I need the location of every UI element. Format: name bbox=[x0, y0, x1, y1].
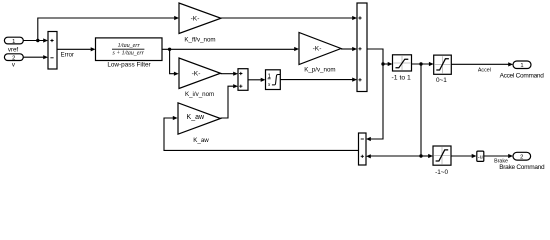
svg-text:s + 1/tau_err: s + 1/tau_err bbox=[112, 51, 144, 57]
svg-text:K_p/v_nom: K_p/v_nom bbox=[304, 67, 335, 74]
svg-text:K_aw: K_aw bbox=[193, 137, 209, 144]
svg-text:vref: vref bbox=[8, 47, 19, 54]
svg-text:-u: -u bbox=[478, 155, 483, 161]
svg-text:2: 2 bbox=[520, 155, 523, 161]
svg-text:0~1: 0~1 bbox=[436, 77, 447, 84]
svg-text:Low-pass Filter: Low-pass Filter bbox=[107, 62, 151, 69]
svg-text:Brake Command: Brake Command bbox=[499, 164, 545, 171]
svg-text:-1 to 1: -1 to 1 bbox=[392, 74, 411, 81]
svg-text:1: 1 bbox=[12, 39, 15, 45]
svg-text:-K-: -K- bbox=[192, 71, 201, 78]
svg-text:-K-: -K- bbox=[313, 46, 322, 53]
svg-text:K_i/v_nom: K_i/v_nom bbox=[185, 91, 214, 98]
svg-text:Error: Error bbox=[61, 53, 74, 59]
svg-text:-1~0: -1~0 bbox=[435, 169, 448, 176]
svg-text:K_aw: K_aw bbox=[187, 114, 205, 121]
svg-text:Accel Command: Accel Command bbox=[500, 73, 545, 80]
svg-text:1/tau_err: 1/tau_err bbox=[118, 43, 141, 49]
svg-text:Accel: Accel bbox=[478, 67, 491, 73]
svg-text:1: 1 bbox=[520, 63, 523, 69]
svg-text:K_ff/v_nom: K_ff/v_nom bbox=[184, 37, 215, 44]
svg-text:-K-: -K- bbox=[191, 15, 200, 22]
